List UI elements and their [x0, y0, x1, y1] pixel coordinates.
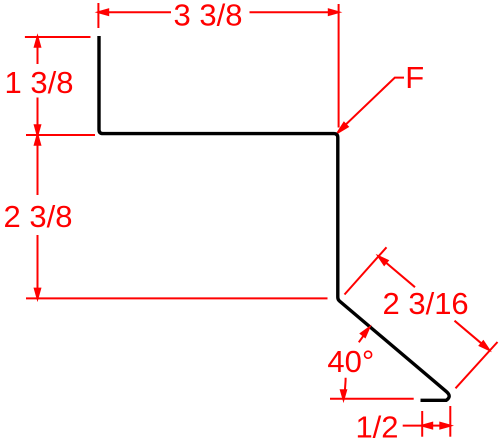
svg-text:40°: 40°	[327, 344, 374, 379]
svg-text:F: F	[405, 60, 424, 95]
svg-text:3 3/8: 3 3/8	[174, 0, 243, 33]
svg-text:2 3/16: 2 3/16	[382, 286, 468, 321]
svg-text:1 3/8: 1 3/8	[5, 65, 74, 100]
svg-text:1/2: 1/2	[355, 409, 398, 443]
svg-text:2 3/8: 2 3/8	[4, 199, 73, 234]
